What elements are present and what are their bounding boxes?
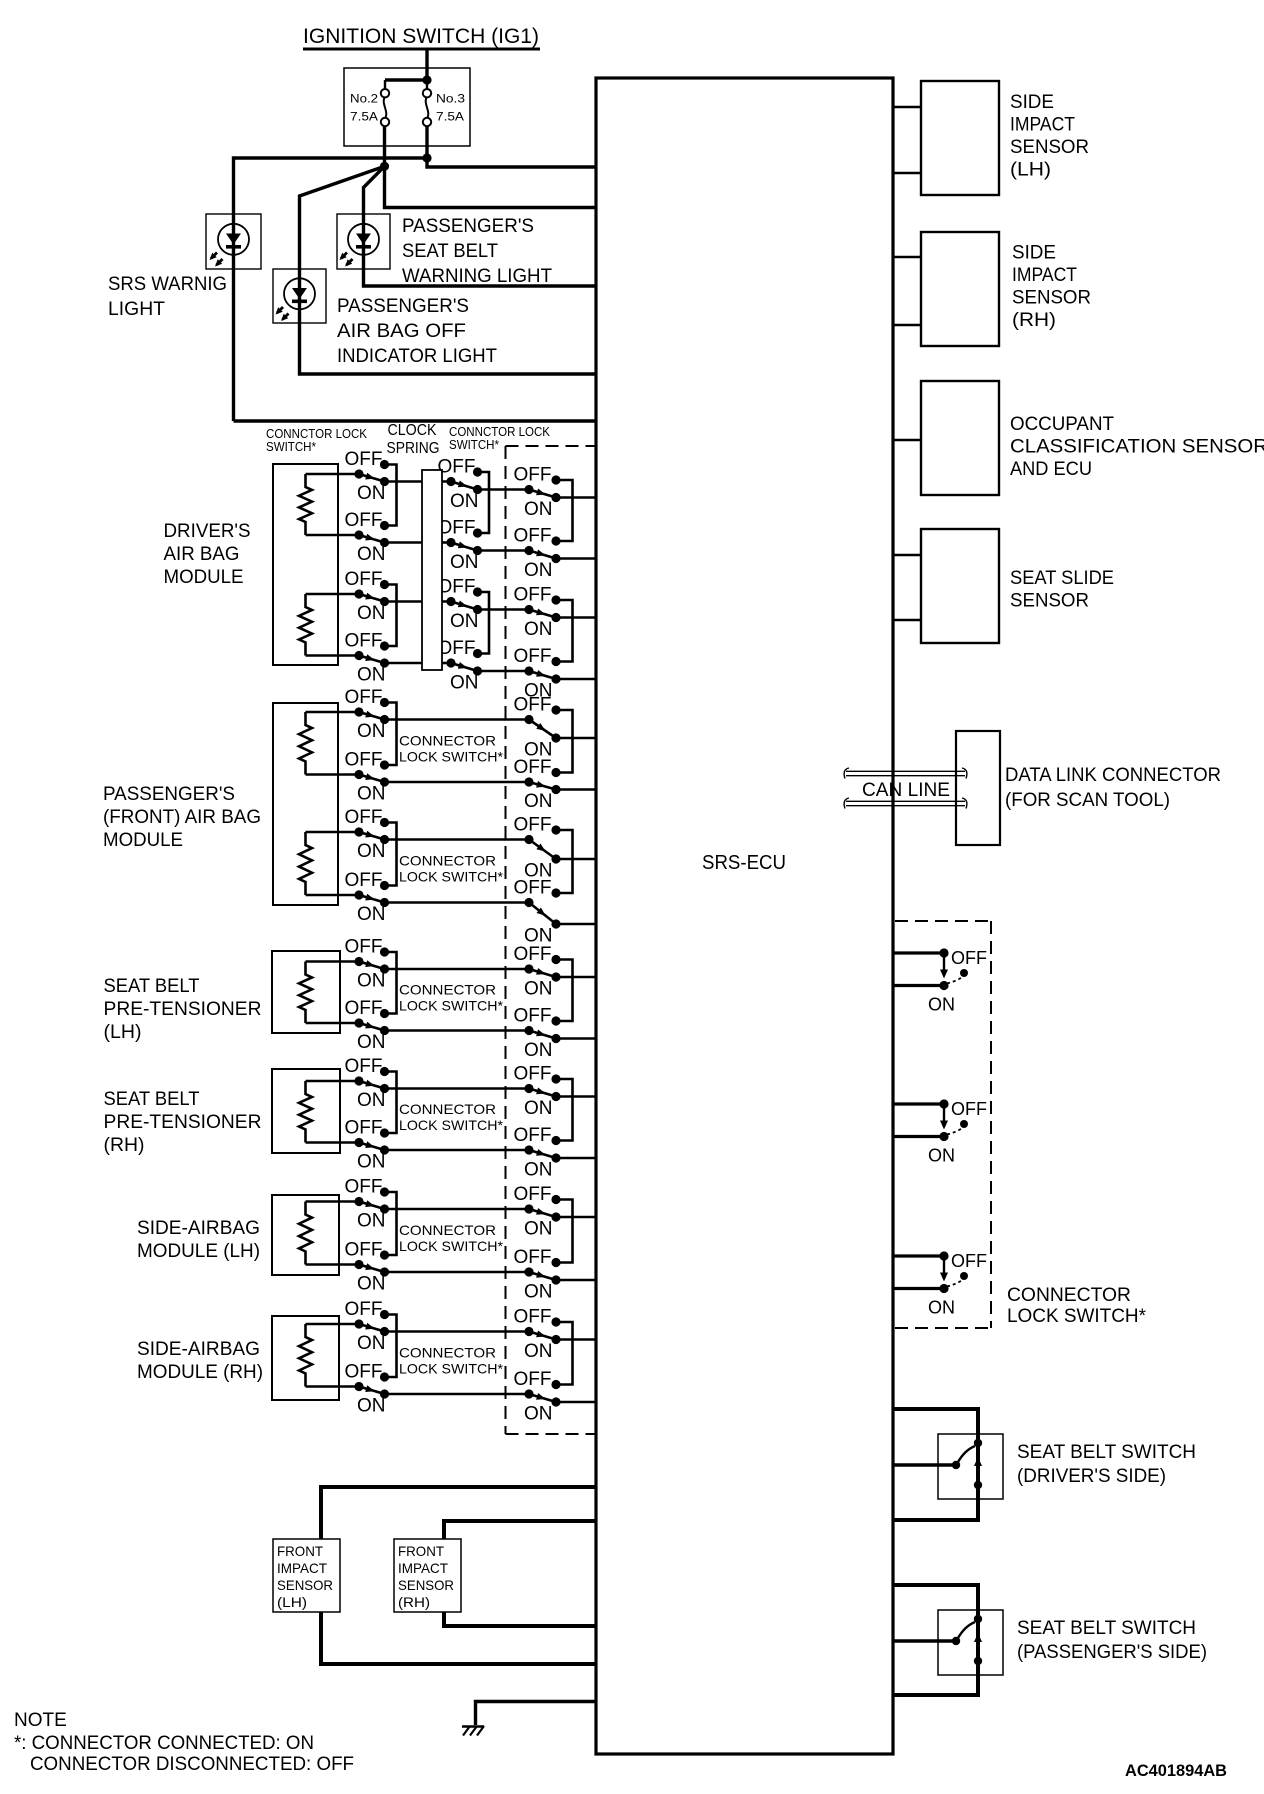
svg-text:ON: ON: [928, 1298, 955, 1318]
svg-text:ON: ON: [524, 499, 553, 520]
svg-text:AIR BAG OFF: AIR BAG OFF: [337, 321, 466, 342]
svg-text:ON: ON: [357, 721, 386, 742]
wire pre-tensioner RH row2 to SRS-ECU: [556, 1157, 596, 1160]
wire fuse No.2 stub: [384, 80, 386, 90]
svg-text:OFF: OFF: [345, 569, 383, 590]
wire side-airbag LH row1 to SRS-ECU: [556, 1216, 596, 1219]
switch driver squib 1 lock B2: [438, 518, 483, 574]
wire passenger squib 1 row2 to lock C2: [385, 781, 530, 784]
svg-text:SENSOR: SENSOR: [398, 1577, 454, 1593]
svg-text:OFF: OFF: [514, 695, 552, 716]
wire loop seat belt switch passenger: [893, 1585, 978, 1695]
svg-text:SENSOR: SENSOR: [1010, 591, 1089, 612]
dashed connector-lock region border: [506, 445, 597, 447]
svg-text:SRS WARNIG: SRS WARNIG: [108, 274, 227, 295]
node fuse feed junction: [422, 75, 431, 84]
svg-text:CONNECTOR: CONNECTOR: [399, 732, 496, 748]
wire branch to air bag off lamp: [300, 166, 597, 374]
svg-text:SPRING: SPRING: [387, 440, 440, 457]
wire passenger squib 2 row2 to SRS-ECU: [556, 923, 596, 926]
svg-text:CONNECTOR: CONNECTOR: [399, 1344, 496, 1360]
svg-text:OFF: OFF: [514, 815, 552, 836]
wire pre-tensioner LH row1 to lock C1: [385, 968, 530, 971]
switch side-airbag RH lock A1: [345, 1299, 390, 1354]
module box driver's air bag: [273, 464, 338, 665]
svg-text:MODULE: MODULE: [164, 567, 244, 588]
svg-text:OFF: OFF: [345, 510, 383, 531]
svg-text:SIDE: SIDE: [1012, 243, 1056, 264]
svg-text:SEAT BELT: SEAT BELT: [402, 241, 498, 262]
wire loop seat belt switch driver: [893, 1409, 978, 1520]
module box side-airbag RH: [272, 1316, 339, 1400]
svg-text:OFF: OFF: [345, 1240, 383, 1261]
node fuse No.2 junction: [380, 162, 389, 171]
switch pre-tensioner RH lock A2: [345, 1118, 390, 1173]
passenger air bag off indicator light box: [273, 269, 326, 323]
svg-text:ON: ON: [357, 603, 386, 624]
resistor side-airbag LH: [299, 1202, 312, 1265]
svg-text:(RH): (RH): [398, 1594, 430, 1610]
svg-text:OFF: OFF: [514, 1184, 552, 1205]
wire pre-tensioner LH row1 to SRS-ECU: [556, 976, 596, 979]
SRS warning light box: [206, 214, 261, 269]
wire driver squib 1 row1 to lock C1: [478, 488, 530, 491]
shorting bar side-airbag RH C: [556, 1322, 573, 1385]
switch pre-tensioner RH lock C2: [514, 1125, 561, 1181]
svg-text:IMPACT: IMPACT: [277, 1560, 327, 1576]
svg-text:LOCK SWITCH*: LOCK SWITCH*: [399, 869, 504, 885]
module box side-airbag LH: [272, 1195, 339, 1275]
svg-text:SEAT BELT: SEAT BELT: [104, 1089, 200, 1110]
svg-text:OFF: OFF: [514, 1369, 552, 1390]
fuse No.3 bottom terminal: [423, 118, 431, 126]
svg-text:FRONT: FRONT: [398, 1543, 444, 1559]
shorting bar driver squib 2 A: [385, 585, 397, 647]
fuse No.3 top terminal: [423, 89, 431, 97]
wire SRS warning lamp to ECU: [234, 419, 597, 422]
wire side-airbag LH row2 to SRS-ECU: [556, 1279, 596, 1282]
switch side-airbag RH lock A2: [345, 1362, 390, 1417]
SRS-ECU box U1: [596, 78, 893, 1754]
switch driver squib 2 lock A1: [345, 569, 390, 624]
svg-text:OFF: OFF: [514, 1125, 552, 1146]
fuse No.2 bottom terminal: [381, 118, 389, 126]
svg-text:IMPACT: IMPACT: [1010, 115, 1075, 136]
wire passenger squib 2 row2 to lock C2: [385, 901, 530, 904]
switch side-airbag LH lock C2: [514, 1247, 561, 1303]
svg-text:(LH): (LH): [104, 1022, 142, 1043]
shorting bar pre-tensioner LH A: [385, 952, 397, 1014]
svg-text:MODULE (LH): MODULE (LH): [137, 1241, 260, 1262]
CAN line 2: [846, 800, 965, 802]
underline bus wire: [303, 48, 540, 51]
svg-text:OFF: OFF: [345, 1362, 383, 1383]
svg-text:ON: ON: [524, 791, 553, 812]
svg-text:OFF: OFF: [345, 937, 383, 958]
wire loop front impact sensor LH: [321, 1487, 596, 1664]
connector lock switch example 1: [893, 948, 987, 1015]
shorting bar passenger squib 2 C: [556, 830, 573, 893]
switch side-airbag RH lock C2: [514, 1369, 561, 1425]
wire ignition feed: [425, 49, 428, 80]
svg-text:LOCK SWITCH*: LOCK SWITCH*: [399, 997, 504, 1013]
wire driver squib 2 row2 to clock spring: [385, 662, 423, 665]
svg-text:ON: ON: [450, 611, 479, 632]
wire side-airbag RH row2 to lock C2: [385, 1393, 530, 1396]
svg-text:ON: ON: [357, 1274, 386, 1295]
svg-text:OFF: OFF: [345, 1299, 383, 1320]
svg-text:OFF: OFF: [345, 1056, 383, 1077]
svg-text:LIGHT: LIGHT: [108, 299, 165, 320]
switch side-airbag LH lock A2: [345, 1240, 390, 1295]
svg-text:7.5A: 7.5A: [350, 112, 378, 124]
wire driver squib 1 row2 clock spring to lock B2: [442, 541, 451, 544]
wire No.3 to ECU pin: [427, 158, 596, 167]
svg-text:*: CONNECTOR CONNECTED: ON: *: CONNECTOR CONNECTED: ON: [14, 1733, 314, 1754]
svg-text:PASSENGER'S: PASSENGER'S: [402, 216, 534, 237]
svg-text:AND ECU: AND ECU: [1010, 459, 1092, 480]
svg-text:CLOCK: CLOCK: [388, 422, 437, 439]
wire side-airbag RH row1 to lock C1: [385, 1330, 530, 1333]
svg-text:LOCK SWITCH*: LOCK SWITCH*: [399, 1238, 504, 1254]
shorting bar pre-tensioner LH C: [556, 960, 573, 1022]
svg-text:AIR BAG: AIR BAG: [164, 544, 240, 565]
connector lock switch example 3: [893, 1251, 987, 1318]
switch driver squib 2 lock B2: [438, 638, 483, 694]
front impact sensor LH box: [273, 1539, 340, 1612]
switch passenger squib 2 lock A1: [345, 807, 390, 862]
svg-text:OFF: OFF: [345, 750, 383, 771]
wire pre-tensioner LH row2 to lock C2: [385, 1029, 530, 1032]
svg-text:OFF: OFF: [345, 998, 383, 1019]
switch driver squib 1 lock C2: [514, 526, 561, 582]
svg-text:SEAT BELT SWITCH: SEAT BELT SWITCH: [1017, 1618, 1196, 1639]
wire branch to seat belt warning lamp: [364, 166, 597, 286]
switch passenger squib 1 lock C2: [514, 757, 561, 812]
wire fuse No.2 output: [383, 126, 386, 166]
wire lamp feed bus: [234, 158, 428, 421]
svg-text:CONNECTOR: CONNECTOR: [399, 981, 496, 997]
node fuse No.3 junction: [422, 153, 431, 162]
svg-text:SEAT BELT SWITCH: SEAT BELT SWITCH: [1017, 1442, 1196, 1463]
svg-text:OFF: OFF: [514, 944, 552, 965]
wire loop front impact sensor RH: [444, 1521, 596, 1626]
wire pre-tensioner RH row2 to lock C2: [385, 1149, 530, 1152]
svg-text:OFF: OFF: [514, 1307, 552, 1328]
sensor box SIDE IMPACT SENSOR (RH): [921, 232, 999, 346]
resistor pre-tensioner LH: [299, 962, 312, 1024]
module box seat belt pre-tensioner LH: [272, 951, 340, 1033]
svg-text:ON: ON: [357, 784, 386, 805]
svg-text:OFF: OFF: [514, 1064, 552, 1085]
wire driver squib 1 row2 to lock C2: [478, 549, 530, 552]
wire stubs OCCUPANT CLASSIFICATION SENSOR AND ECU: [893, 439, 921, 442]
shorting bar passenger squib 1 C: [556, 710, 573, 773]
svg-text:(PASSENGER'S SIDE): (PASSENGER'S SIDE): [1017, 1642, 1207, 1663]
svg-text:ON: ON: [524, 1341, 553, 1362]
svg-text:OFF: OFF: [438, 457, 476, 478]
svg-text:CONNECTOR: CONNECTOR: [399, 1222, 496, 1238]
svg-text:SIDE-AIRBAG: SIDE-AIRBAG: [137, 1339, 260, 1360]
data link connector box: [956, 731, 1000, 845]
svg-text:7.5A: 7.5A: [436, 112, 464, 124]
fuse No.2 top terminal: [381, 89, 389, 97]
svg-text:PASSENGER'S: PASSENGER'S: [103, 784, 235, 805]
fuse box: [344, 68, 470, 146]
svg-text:PRE-TENSIONER: PRE-TENSIONER: [104, 1112, 262, 1133]
switch pre-tensioner RH lock C1: [514, 1064, 561, 1120]
svg-text:CONNCTOR LOCK: CONNCTOR LOCK: [266, 427, 368, 441]
svg-text:ON: ON: [357, 1152, 386, 1173]
switch passenger squib 1 lock C1: [514, 695, 561, 761]
passenger seat belt warning light box: [337, 214, 390, 269]
svg-text:ON: ON: [357, 665, 386, 686]
wire passenger squib 1 row2 to SRS-ECU: [556, 788, 596, 791]
switch pre-tensioner LH lock A1: [345, 937, 390, 992]
svg-text:No.3: No.3: [436, 94, 465, 106]
svg-text:ON: ON: [357, 1211, 386, 1232]
resistor side-airbag RH leads: [306, 1323, 360, 1326]
clock spring box: [422, 470, 442, 670]
svg-text:ON: ON: [524, 1282, 553, 1303]
switch driver squib 1 lock C1: [514, 465, 561, 521]
svg-text:MODULE (RH): MODULE (RH): [137, 1362, 263, 1383]
switch driver squib 1 lock A2: [345, 510, 390, 565]
svg-text:MODULE: MODULE: [103, 830, 183, 851]
wire stubs SIDE IMPACT SENSOR (LH): [893, 106, 921, 109]
switch passenger squib 2 lock C2: [514, 878, 561, 947]
switch passenger squib 2 lock A2: [345, 870, 390, 925]
svg-text:LOCK SWITCH*: LOCK SWITCH*: [1007, 1306, 1147, 1327]
wire driver squib 1 row2 to SRS-ECU: [556, 557, 596, 560]
svg-text:CONNECTOR: CONNECTOR: [399, 853, 496, 869]
svg-text:OFF: OFF: [438, 638, 476, 659]
svg-text:IMPACT: IMPACT: [1012, 265, 1077, 286]
svg-text:OFF: OFF: [514, 585, 552, 606]
svg-text:OFF: OFF: [514, 465, 552, 486]
switch driver squib 1 lock A1: [345, 449, 390, 504]
wire passenger squib 2 row1 to SRS-ECU: [556, 858, 596, 861]
svg-text:PRE-TENSIONER: PRE-TENSIONER: [104, 999, 262, 1020]
resistor driver squib 1: [299, 474, 312, 535]
svg-text:SENSOR: SENSOR: [277, 1577, 333, 1593]
svg-text:CLASSIFICATION SENSOR: CLASSIFICATION SENSOR: [1010, 437, 1264, 458]
svg-text:OFF: OFF: [438, 577, 476, 598]
svg-text:ON: ON: [357, 483, 386, 504]
svg-text:SEAT BELT: SEAT BELT: [104, 976, 200, 997]
resistor pre-tensioner LH leads: [306, 960, 360, 963]
wire pre-tensioner LH row2 to SRS-ECU: [556, 1037, 596, 1040]
wire driver squib 2 row1 to lock C1: [478, 608, 530, 611]
svg-text:ON: ON: [357, 841, 386, 862]
switch side-airbag RH lock C1: [514, 1307, 561, 1363]
svg-text:(RH): (RH): [1012, 310, 1056, 331]
svg-text:OFF: OFF: [345, 631, 383, 652]
wire driver squib 2 row2 clock spring to lock B2: [442, 662, 451, 665]
svg-text:OFF: OFF: [951, 948, 987, 968]
resistor driver squib 2 leads: [306, 593, 360, 596]
shorting bar passenger squib 1 A: [385, 703, 397, 766]
svg-text:OFF: OFF: [514, 646, 552, 667]
wire pre-tensioner RH row1 to lock C1: [385, 1087, 530, 1090]
connector lock switch example 2: [893, 1099, 987, 1166]
resistor side-airbag LH leads: [306, 1200, 360, 1203]
svg-text:ON: ON: [524, 979, 553, 1000]
svg-text:ON: ON: [524, 619, 553, 640]
wire side-airbag LH row2 to lock C2: [385, 1271, 530, 1274]
sensor box SEAT SLIDE SENSOR: [921, 529, 999, 643]
svg-text:OFF: OFF: [951, 1251, 987, 1271]
svg-text:SRS-ECU: SRS-ECU: [702, 852, 786, 874]
svg-text:IGNITION SWITCH (IG1): IGNITION SWITCH (IG1): [303, 25, 539, 48]
sensor box SIDE IMPACT SENSOR (LH): [921, 81, 999, 195]
resistor driver squib 2: [299, 594, 312, 656]
switch pre-tensioner RH lock A1: [345, 1056, 390, 1111]
svg-text:AC401894AB: AC401894AB: [1125, 1761, 1227, 1780]
shorting bar side-airbag RH A: [385, 1315, 397, 1378]
svg-text:CAN LINE: CAN LINE: [862, 780, 950, 801]
svg-text:CONNECTOR: CONNECTOR: [399, 1101, 496, 1117]
svg-text:OFF: OFF: [438, 518, 476, 539]
svg-text:ON: ON: [524, 560, 553, 581]
svg-text:CONNECTOR DISCONNECTED: OFF: CONNECTOR DISCONNECTED: OFF: [30, 1754, 354, 1775]
wire driver squib 2 row2 to SRS-ECU: [556, 678, 596, 681]
svg-text:OCCUPANT: OCCUPANT: [1010, 414, 1114, 435]
wire driver squib 2 row1 to SRS-ECU: [556, 616, 596, 619]
svg-text:No.2: No.2: [350, 94, 378, 106]
wire to ground: [476, 1702, 597, 1726]
wire side-airbag RH row2 to SRS-ECU: [556, 1401, 596, 1404]
svg-text:OFF: OFF: [345, 807, 383, 828]
svg-text:FRONT: FRONT: [277, 1543, 323, 1559]
wire driver squib 1 row2 to clock spring: [385, 541, 423, 544]
switch side-airbag LH lock A1: [345, 1177, 390, 1232]
svg-text:(LH): (LH): [1010, 160, 1051, 181]
svg-text:OFF: OFF: [345, 687, 383, 708]
svg-text:ON: ON: [524, 1219, 553, 1240]
switch pre-tensioner LH lock C2: [514, 1006, 561, 1062]
switch seat belt switch passenger: [938, 1610, 1003, 1675]
switch passenger squib 1 lock A2: [345, 750, 390, 805]
indicator lamp SRS warning light: [210, 224, 250, 267]
svg-text:ON: ON: [928, 995, 955, 1015]
svg-text:PASSENGER'S: PASSENGER'S: [337, 296, 469, 317]
wire pre-tensioner RH row1 to SRS-ECU: [556, 1095, 596, 1098]
svg-text:SEAT SLIDE: SEAT SLIDE: [1010, 568, 1114, 589]
wire stub seat belt switch passenger: [893, 1639, 956, 1643]
svg-text:SIDE-AIRBAG: SIDE-AIRBAG: [137, 1218, 260, 1239]
front impact sensor RH box: [394, 1539, 461, 1612]
switch driver squib 2 lock C2: [514, 646, 561, 702]
svg-text:(RH): (RH): [104, 1135, 145, 1156]
svg-text:CONNECTOR: CONNECTOR: [1007, 1285, 1131, 1306]
svg-text:ON: ON: [357, 544, 386, 565]
switch pre-tensioner LH lock A2: [345, 998, 390, 1053]
wire passenger squib 1 row1 to lock C1: [385, 718, 530, 721]
resistor pre-tensioner RH: [299, 1081, 312, 1143]
svg-text:LOCK SWITCH*: LOCK SWITCH*: [399, 1360, 504, 1376]
svg-text:IMPACT: IMPACT: [398, 1560, 448, 1576]
shorting bar pre-tensioner RH C: [556, 1079, 573, 1141]
shorting bar driver squib 2 C: [556, 600, 573, 662]
resistor driver squib 1 leads: [306, 473, 360, 476]
svg-text:OFF: OFF: [514, 878, 552, 899]
fuse No.3 element: [426, 97, 429, 118]
svg-text:(FRONT) AIR BAG: (FRONT) AIR BAG: [103, 807, 261, 828]
shorting bar driver squib 1 A: [385, 465, 397, 526]
svg-text:DATA LINK CONNECTOR: DATA LINK CONNECTOR: [1005, 765, 1221, 786]
resistor passenger squib 2: [299, 832, 312, 895]
switch driver squib 1 lock B1: [438, 457, 483, 513]
resistor passenger squib 1: [299, 712, 312, 775]
module box seat belt pre-tensioner RH: [272, 1069, 340, 1153]
svg-text:ON: ON: [928, 1146, 955, 1166]
wire side-airbag LH row1 to lock C1: [385, 1208, 530, 1211]
wire driver squib 2 row1 clock spring to lock B1: [442, 600, 451, 603]
indicator lamp passenger seat belt warning light: [340, 224, 380, 267]
wire fuse box jumper: [385, 78, 427, 81]
switch driver squib 2 lock B1: [438, 577, 483, 633]
switch driver squib 2 lock C1: [514, 585, 561, 641]
wire driver squib 2 row1 to clock spring: [385, 600, 423, 603]
wire stubs SIDE IMPACT SENSOR (RH): [893, 256, 921, 259]
ground: [462, 1726, 484, 1736]
fuse No.2 element: [384, 97, 387, 118]
wire stub seat belt switch driver: [893, 1463, 956, 1467]
svg-text:ON: ON: [524, 1098, 553, 1119]
svg-text:DRIVER'S: DRIVER'S: [164, 521, 251, 542]
svg-text:WARNING LIGHT: WARNING LIGHT: [402, 266, 552, 287]
svg-text:OFF: OFF: [345, 1177, 383, 1198]
svg-text:SWITCH*: SWITCH*: [449, 438, 499, 452]
sensor box OCCUPANT CLASSIFICATION SENSOR AND ECU: [921, 381, 999, 495]
svg-text:SENSOR: SENSOR: [1010, 137, 1089, 158]
CAN line 1: [846, 770, 965, 772]
svg-text:ON: ON: [524, 1040, 553, 1061]
indicator lamp passenger air bag off indicator light: [276, 278, 316, 321]
switch pre-tensioner LH lock C1: [514, 944, 561, 1000]
svg-text:OFF: OFF: [345, 449, 383, 470]
svg-text:NOTE: NOTE: [14, 1710, 67, 1731]
resistor passenger squib 2 leads: [306, 831, 360, 834]
svg-text:(DRIVER'S SIDE): (DRIVER'S SIDE): [1017, 1466, 1166, 1487]
svg-text:INDICATOR LIGHT: INDICATOR LIGHT: [337, 346, 497, 367]
resistor side-airbag RH: [299, 1324, 312, 1387]
svg-text:LOCK SWITCH*: LOCK SWITCH*: [399, 748, 504, 764]
svg-text:OFF: OFF: [514, 757, 552, 778]
svg-text:ON: ON: [450, 673, 479, 694]
svg-text:LOCK SWITCH*: LOCK SWITCH*: [399, 1117, 504, 1133]
wire passenger squib 2 row1 to lock C1: [385, 838, 530, 841]
wire side-airbag RH row1 to SRS-ECU: [556, 1338, 596, 1341]
wire fuse No.3 stub: [426, 84, 428, 90]
switch driver squib 2 lock A2: [345, 631, 390, 686]
svg-text:ON: ON: [524, 1160, 553, 1181]
switch passenger squib 2 lock C1: [514, 815, 561, 882]
shorting bar driver squib 2 B: [478, 592, 490, 654]
svg-text:OFF: OFF: [514, 1247, 552, 1268]
resistor pre-tensioner RH leads: [306, 1080, 360, 1083]
svg-text:ON: ON: [357, 904, 386, 925]
wire driver squib 1 row1 to SRS-ECU: [556, 496, 596, 499]
shorting bar pre-tensioner RH A: [385, 1072, 397, 1134]
svg-text:ON: ON: [357, 1090, 386, 1111]
resistor passenger squib 1 leads: [306, 711, 360, 714]
svg-text:ON: ON: [357, 1032, 386, 1053]
switch side-airbag LH lock C1: [514, 1184, 561, 1240]
shorting bar side-airbag LH A: [385, 1192, 397, 1255]
dashed connector lock switch box: [895, 920, 991, 922]
